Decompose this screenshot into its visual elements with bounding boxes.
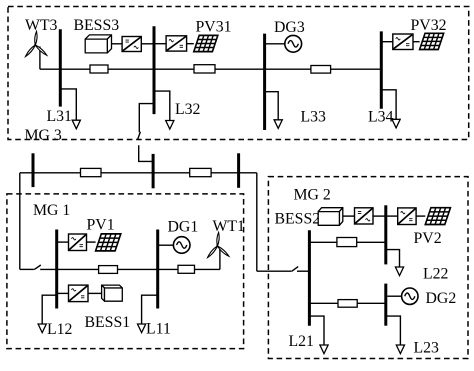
wire: load branch L31 xyxy=(60,89,76,120)
wire: switch S3 to tie bus T2 xyxy=(139,145,153,161)
line impedance Z-22 (MG2 lower) xyxy=(338,300,357,308)
wire: MG2 lower feeder xyxy=(309,302,385,304)
wire: load branch L11 xyxy=(142,295,158,324)
bus MG3-4 (PV32/L34) xyxy=(380,31,383,108)
svg-text:PV32: PV32 xyxy=(411,17,447,34)
svg-text:PV31: PV31 xyxy=(196,19,232,36)
svg-text:MG 3: MG 3 xyxy=(25,127,62,144)
wire: PV2 converter to panel xyxy=(416,215,425,217)
line impedance Z-11 (MG1 feeder) xyxy=(99,266,118,274)
tie bus T3 xyxy=(237,153,240,188)
wind turbine WT1 xyxy=(208,232,229,257)
wire: WT3 mast drop to feeder xyxy=(39,48,41,70)
wire: tie drop to MG2 switch xyxy=(256,173,258,271)
load arrow L21 xyxy=(320,345,328,354)
svg-text:BESS3: BESS3 xyxy=(74,17,120,34)
load arrow L31 xyxy=(72,120,80,129)
load arrow L12 xyxy=(38,324,46,333)
converter of BESS2 (DC/AC) xyxy=(355,208,374,224)
svg-text:L11: L11 xyxy=(146,321,171,338)
bus MG2-2 upper (BESS2/PV2/L22) xyxy=(384,205,387,264)
wire: bus MG3-2 to PV31 converter xyxy=(154,43,166,45)
bus MG2-1 (left) xyxy=(308,230,311,326)
converter of BESS3 (DC/AC) xyxy=(122,37,141,52)
wire: load branch L32 xyxy=(154,91,170,120)
converter of PV31 (AC/DC) xyxy=(166,36,187,51)
line impedance Z-T1 (tie T1-T2) xyxy=(81,168,102,176)
bus MG1-1 (PV1/BESS1/L12) xyxy=(55,230,58,309)
bus MG3-1 (WT3/BESS3/L31) xyxy=(59,29,62,106)
tie bus T1 xyxy=(32,153,35,187)
wire: PV31 converter to panel xyxy=(187,43,194,45)
wire: bus MG1-1 to PV1 converter xyxy=(57,241,69,243)
svg-text:L34: L34 xyxy=(368,108,394,125)
wire: bus MG1-1 to BESS1 converter xyxy=(57,292,69,294)
wire: load branch L22 xyxy=(386,250,400,267)
switch S2 blade (MG2 tie) xyxy=(292,267,299,272)
wire: bus MG3-3 to DG3 xyxy=(265,43,285,45)
battery block BESS3 xyxy=(85,35,111,53)
wire: load branch L34 xyxy=(381,90,396,120)
wire: PV32 converter to panel xyxy=(413,41,420,43)
load arrow L11 xyxy=(138,324,146,333)
svg-text:L21: L21 xyxy=(289,333,314,350)
wire: load branch L12 xyxy=(42,295,57,324)
wire: into switch S1 xyxy=(20,268,34,270)
wire: load branch L21 xyxy=(309,316,324,345)
svg-text:L23: L23 xyxy=(414,340,440,357)
converter of PV2 (AC/DC) xyxy=(398,208,416,225)
wire: switch S1 to bus MG1-1 xyxy=(40,268,57,270)
line impedance Z-32 (MG3 feeder 2-3) xyxy=(194,65,215,73)
svg-text:DG3: DG3 xyxy=(274,19,305,36)
battery block BESS1 xyxy=(102,285,123,301)
converter of BESS1 (AC/DC) xyxy=(69,285,89,302)
wire: tie drop to MG1 switch xyxy=(19,173,21,270)
load arrow L33 xyxy=(274,120,282,129)
wire: PV1 converter to panel xyxy=(87,241,96,243)
bus MG2-2 lower (DG2/L23) xyxy=(384,284,387,326)
bus MG3-3 (DG3/L33) xyxy=(263,34,266,130)
wire: bus MG3-4 to PV32 converter xyxy=(381,41,393,43)
svg-text:MG 2: MG 2 xyxy=(294,186,331,203)
load arrow L23 xyxy=(396,345,404,354)
bus MG3-2 (PV31/L32) xyxy=(153,26,156,114)
wire: BESS3 converter to bus MG3-1... bus MG3-2 xyxy=(141,43,154,45)
bus MG1-2 (DG1/L11) xyxy=(156,230,159,309)
svg-text:PV2: PV2 xyxy=(414,230,442,247)
wire: load branch L23 xyxy=(386,316,401,345)
svg-text:L32: L32 xyxy=(175,101,201,118)
switch S3 blade (MG3 tie) xyxy=(138,132,141,140)
svg-text:WT3: WT3 xyxy=(25,17,58,34)
PV array PV1 xyxy=(96,234,121,251)
svg-text:PV1: PV1 xyxy=(87,216,115,233)
switch S1 blade (MG1 tie) xyxy=(34,265,41,270)
load arrow L32 xyxy=(166,121,174,130)
diesel generator DG1 xyxy=(173,237,190,254)
line impedance Z-21 (MG2 upper) xyxy=(337,238,357,247)
wire: WT1 mast to feeder xyxy=(219,250,221,270)
PV array PV32 xyxy=(420,33,444,49)
svg-text:MG 1: MG 1 xyxy=(33,202,70,219)
PV array PV2 xyxy=(425,208,450,225)
wire: tie into switch S2 xyxy=(257,270,292,272)
wire: BESS1 converter to battery xyxy=(88,292,102,294)
tie bus T2 xyxy=(152,154,155,188)
diesel generator DG3 xyxy=(285,35,302,52)
diesel generator DG2 xyxy=(402,288,418,304)
line impedance Z-31 (MG3 feeder 1-2) xyxy=(90,65,108,73)
wire: switch S2 to bus MG2-1 xyxy=(297,270,309,272)
load arrow L34 xyxy=(392,119,400,128)
svg-text:L31: L31 xyxy=(47,108,72,125)
wire: bus MG2-2 to PV2 converter xyxy=(386,215,398,217)
wire: bus MG2-2 lower to DG2 xyxy=(387,295,401,297)
microgrid MG2 dashed boundary xyxy=(268,177,468,359)
wire: BESS3 to converter xyxy=(112,43,123,45)
wire: bus MG1-2 to DG1 xyxy=(158,244,174,246)
battery block BESS2 xyxy=(318,208,343,226)
wire: tie from bus MG3-2 down to switch S3 xyxy=(139,104,154,133)
wire: MG1 main feeder line xyxy=(57,268,220,270)
load arrow L22 xyxy=(395,267,403,276)
wire: load branch L33 xyxy=(265,92,279,120)
microgrid MG3 dashed boundary xyxy=(8,7,469,140)
svg-text:WT1: WT1 xyxy=(213,218,245,235)
line impedance Z-33 (MG3 feeder 3-4) xyxy=(311,66,331,74)
svg-text:DG2: DG2 xyxy=(426,290,457,307)
wind turbine WT3 xyxy=(26,31,47,56)
converter of PV1 (AC/DC) xyxy=(69,234,87,251)
svg-text:BESS1: BESS1 xyxy=(85,314,131,331)
wire: MG3 main feeder line xyxy=(40,68,381,70)
svg-text:L22: L22 xyxy=(423,265,449,282)
PV array PV31 xyxy=(194,35,218,51)
wire: BESS2 to converter xyxy=(343,215,355,217)
line impedance Z-12 (MG1 feeder to WT1) xyxy=(178,265,195,273)
wire: BESS2 converter to bus MG2-2 xyxy=(373,215,386,217)
svg-text:L12: L12 xyxy=(47,321,73,338)
svg-text:DG1: DG1 xyxy=(168,219,199,236)
wire: MG2 upper feeder xyxy=(309,241,385,243)
line impedance Z-T2 (tie T2-T3) xyxy=(190,168,211,176)
converter of PV32 (AC/DC) xyxy=(393,34,413,50)
svg-text:BESS2: BESS2 xyxy=(275,210,321,227)
svg-text:L33: L33 xyxy=(301,108,327,125)
wire: tie feeder between microgrids xyxy=(20,172,257,174)
microgrid MG1 dashed boundary xyxy=(7,194,244,349)
